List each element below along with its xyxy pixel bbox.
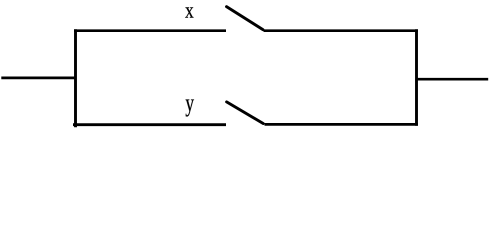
wire right vertical (node B junction) <box>415 29 418 126</box>
wire top branch right segment <box>264 29 418 32</box>
wire bottom branch left segment (to switch y fixed contact) <box>73 123 226 126</box>
wire right lead <box>416 78 488 81</box>
switch x blade (open) <box>227 7 263 30</box>
label x <box>185 7 193 17</box>
wire left lead <box>1 77 76 80</box>
label y <box>186 99 194 116</box>
switch y blade (open) <box>227 102 264 124</box>
wire left vertical (node A junction) <box>74 29 77 127</box>
wire top branch left segment (to switch x fixed contact) <box>74 29 226 32</box>
wire bottom branch right segment <box>265 123 418 126</box>
